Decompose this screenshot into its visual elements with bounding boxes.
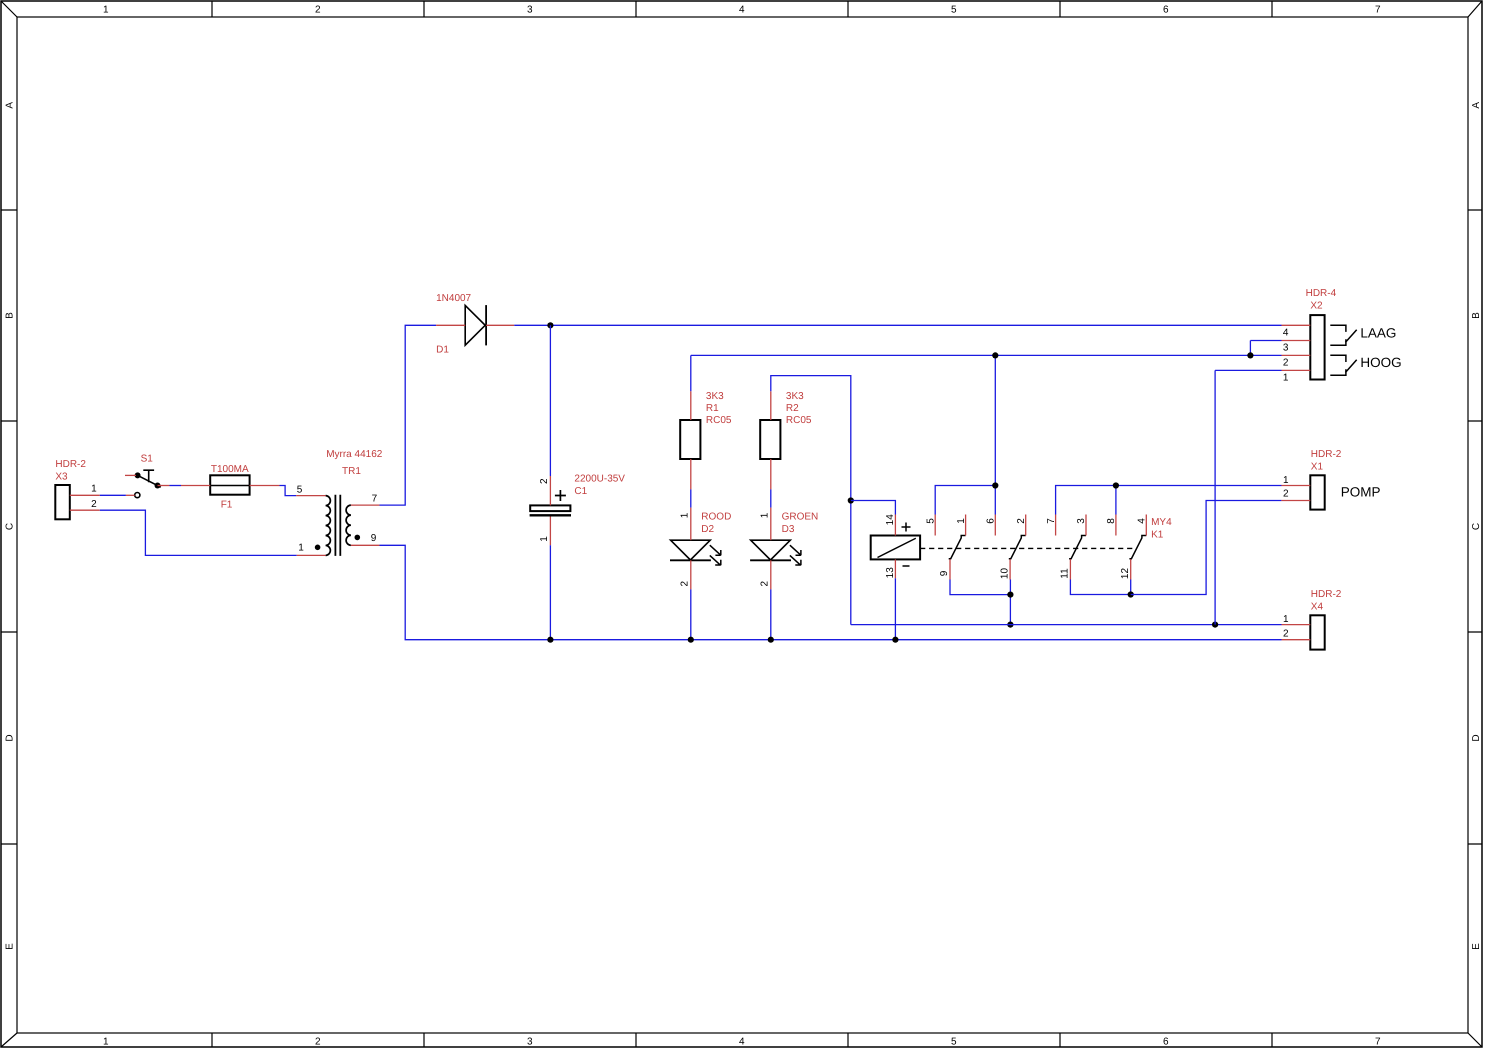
svg-text:5: 5 (925, 518, 936, 524)
svg-text:2: 2 (315, 1037, 321, 1048)
pin K1-3 (1085, 515, 1087, 536)
wire K1.9 down (950, 580, 1010, 595)
pin R2-2 (770, 459, 772, 489)
svg-text:11: 11 (1060, 568, 1071, 579)
wire R2 to D3 (770, 489, 772, 507)
svg-text:HDR-2: HDR-2 (1311, 589, 1342, 600)
relay K1 contact 4 (1129, 536, 1146, 559)
svg-text:3: 3 (527, 1037, 533, 1048)
capacitor C1 (530, 490, 571, 515)
pin R1-1 (690, 391, 692, 420)
svg-text:7: 7 (1375, 5, 1381, 16)
pin K1-9 (949, 559, 951, 579)
svg-text:9: 9 (371, 533, 377, 544)
svg-text:3: 3 (1076, 518, 1087, 524)
wire K1.11 down (1070, 580, 1130, 595)
svg-text:B: B (4, 312, 15, 319)
svg-text:R2: R2 (786, 403, 799, 414)
connector X2 body (1310, 315, 1324, 379)
pin D1 anode (436, 324, 465, 326)
svg-text:T100MA: T100MA (211, 464, 249, 475)
svg-text:D: D (1471, 734, 1482, 741)
svg-text:HDR-2: HDR-2 (55, 459, 86, 470)
svg-text:3K3: 3K3 (786, 391, 804, 402)
junction node K1.5/K1.6 (992, 482, 998, 488)
svg-text:LAAG: LAAG (1360, 326, 1396, 341)
fuse F1 (210, 475, 249, 494)
pin K1-5 (934, 515, 936, 536)
pin TR1-1 (297, 554, 326, 556)
relay K1 coil (871, 523, 920, 567)
pin X3-2 (70, 509, 100, 511)
svg-text:2: 2 (315, 5, 321, 16)
svg-text:1: 1 (1283, 475, 1289, 486)
junction node bus/K1.6 (992, 352, 998, 358)
wire F1 to TR1.5 (280, 486, 297, 496)
wire coil net to K1.14 (851, 501, 896, 515)
junction node C1/bus (547, 637, 553, 643)
svg-text:GROEN: GROEN (782, 512, 819, 523)
svg-text:D1: D1 (436, 344, 449, 355)
svg-text:5: 5 (951, 1037, 957, 1048)
relay K1 actuation dashed line (920, 547, 1136, 549)
wire bus to R1 top (690, 355, 692, 391)
svg-text:7: 7 (1046, 518, 1057, 524)
svg-text:E: E (1471, 943, 1482, 950)
wire X2.1 vertical (1214, 370, 1216, 624)
pin K1-12 (1130, 559, 1132, 579)
pin X2-3 (1282, 340, 1311, 342)
svg-text:6: 6 (1163, 5, 1169, 16)
svg-text:RC05: RC05 (786, 415, 812, 426)
wire TR1.7 to D1 anode (380, 325, 437, 505)
junction node D3/bus (768, 637, 774, 643)
svg-text:1: 1 (539, 536, 550, 542)
wire positive bus to X2.4 (514, 324, 1281, 326)
svg-text:9: 9 (939, 570, 950, 576)
svg-text:S1: S1 (141, 454, 154, 465)
pin F1-1 (181, 485, 210, 487)
svg-text:C1: C1 (574, 486, 587, 497)
pin K1-10 (1009, 559, 1011, 579)
resistor R1 (680, 420, 700, 459)
connector X4 body (1310, 615, 1324, 649)
svg-text:1: 1 (1283, 372, 1289, 383)
svg-text:14: 14 (885, 514, 896, 526)
junction node K1.10/coil net (1007, 622, 1013, 628)
pin X4-1 (1282, 624, 1311, 626)
junction TR1 secondary phase dot (355, 535, 361, 541)
wire X2.1 horizontal (1215, 369, 1281, 371)
svg-text:A: A (1471, 102, 1482, 109)
svg-text:ROOD: ROOD (701, 512, 731, 523)
svg-text:1N4007: 1N4007 (436, 293, 471, 304)
svg-text:X1: X1 (1311, 461, 1324, 472)
pin C1-2 (549, 476, 551, 505)
svg-text:F1: F1 (221, 500, 233, 511)
pin K1-11 (1069, 559, 1071, 579)
pin S1 throw (126, 494, 135, 496)
svg-text:1: 1 (1283, 614, 1289, 625)
pin R1-2 (690, 459, 692, 489)
junction S1 contact (155, 483, 161, 489)
svg-text:10: 10 (999, 568, 1010, 580)
diode D1 (465, 305, 486, 345)
svg-text:5: 5 (951, 5, 957, 16)
svg-text:R1: R1 (706, 403, 719, 414)
svg-text:1: 1 (103, 1037, 109, 1048)
wire K1.13 to bottom bus (894, 578, 896, 639)
LED D3 (750, 540, 801, 565)
LED D2 (670, 540, 721, 565)
pin D2 cathode (690, 560, 692, 589)
wire C1.1 to bottom bus (549, 545, 551, 639)
junction node D1/C1 (547, 322, 553, 328)
junction TR1 primary phase dot (315, 545, 321, 551)
svg-text:MY4: MY4 (1151, 517, 1172, 528)
wire TR1.9 bottom bus (380, 545, 1282, 639)
wire X3.2 to TR1.1 (100, 510, 297, 555)
pin K1-7 (1055, 515, 1057, 536)
svg-text:1: 1 (103, 5, 109, 16)
float switch symbol LAAG (1330, 325, 1356, 345)
wire K1.10 down (1009, 580, 1011, 625)
pin K1-4 (1145, 515, 1147, 536)
junction node K1.13/bus (892, 637, 898, 643)
pin TR1-7 (351, 504, 380, 506)
svg-text:7: 7 (372, 493, 378, 504)
junction node D2/bus (688, 637, 694, 643)
junction node X2.1 net (1212, 622, 1218, 628)
svg-text:C: C (4, 523, 15, 530)
pin K1-2 (1025, 515, 1027, 536)
pin X3-1 (70, 494, 100, 496)
svg-text:POMP: POMP (1341, 485, 1381, 500)
relay K1 contact 3 (1069, 536, 1086, 559)
svg-text:6: 6 (1163, 1037, 1169, 1048)
svg-text:8: 8 (1106, 518, 1117, 524)
pin K1-6 (994, 515, 996, 536)
pin D2 anode (690, 508, 692, 541)
junction node K1.9/K1.10 (1007, 592, 1013, 598)
wire D2 to bottom bus (690, 589, 692, 639)
svg-text:HOOG: HOOG (1360, 355, 1401, 370)
pin D3 anode (770, 508, 772, 541)
pin TR1-9 (351, 544, 380, 546)
pin S1 out (158, 485, 170, 487)
pin K1-8 (1115, 515, 1117, 536)
svg-text:1: 1 (759, 512, 770, 518)
svg-text:4: 4 (1137, 518, 1148, 524)
svg-text:A: A (4, 102, 15, 109)
transformer TR1 (326, 495, 351, 556)
svg-text:D: D (4, 734, 15, 741)
pin C1-1 (549, 517, 551, 546)
svg-text:5: 5 (297, 484, 303, 495)
svg-text:13: 13 (885, 567, 896, 579)
pin K1-1 (965, 515, 967, 536)
wire R1 to D2 (690, 489, 692, 507)
svg-text:2: 2 (759, 580, 770, 586)
svg-text:X3: X3 (55, 472, 68, 483)
junction node K1.7/K1.8 (1113, 482, 1119, 488)
svg-text:2: 2 (1016, 518, 1027, 524)
svg-text:1: 1 (679, 512, 690, 518)
wire D3 to bottom bus (770, 589, 772, 639)
junction node coil14 (848, 497, 854, 503)
svg-text:E: E (4, 943, 15, 950)
svg-text:K1: K1 (1151, 529, 1164, 540)
svg-text:2: 2 (679, 580, 690, 586)
svg-text:2: 2 (1283, 489, 1289, 500)
pin K1-14 (894, 515, 896, 536)
svg-text:4: 4 (739, 5, 745, 16)
wire bus R1/X2.2 (691, 354, 1282, 356)
svg-text:2: 2 (1283, 358, 1289, 369)
wire X3.1 to S1 (100, 494, 126, 496)
pin X1-2 (1281, 500, 1310, 502)
svg-text:7: 7 (1375, 1037, 1381, 1048)
svg-text:4: 4 (739, 1037, 745, 1048)
connector X3 body (55, 485, 70, 519)
svg-text:D3: D3 (782, 524, 795, 535)
pin D1 cathode (486, 324, 514, 326)
junction node X2.2/X2.3 (1247, 352, 1253, 358)
float switch symbol HOOG (1330, 355, 1356, 375)
connector X1 body (1310, 475, 1324, 509)
svg-text:4: 4 (1283, 328, 1289, 339)
wire K1.12 down (1130, 580, 1132, 595)
wire coil net to X4.1 (851, 624, 1282, 626)
svg-text:6: 6 (986, 518, 997, 524)
pin TR1-5 (296, 495, 325, 497)
wire K1.6 to mid bus (994, 355, 996, 514)
svg-text:D2: D2 (701, 524, 714, 535)
wire K1.8 up (1115, 486, 1117, 515)
pin K1-13 (894, 559, 896, 578)
svg-text:C: C (1471, 523, 1482, 530)
svg-text:3: 3 (1283, 343, 1289, 354)
switch S1 (135, 470, 161, 498)
pin R2-1 (770, 391, 772, 420)
junction node K1.11/K1.12 (1128, 591, 1134, 597)
wire bus down to C1.2 (549, 325, 551, 476)
svg-text:2: 2 (91, 499, 97, 510)
wire S1 to F1 (170, 485, 182, 487)
wire K1.5 up (935, 486, 995, 515)
svg-text:HDR-4: HDR-4 (1306, 288, 1337, 299)
wire R2 top to coil net (771, 376, 851, 625)
svg-text:3K3: 3K3 (706, 391, 724, 402)
pin X1-1 (1281, 485, 1310, 487)
pin S1 top (125, 474, 136, 476)
wire X2.3 horizontal (1250, 340, 1281, 342)
svg-text:HDR-2: HDR-2 (1311, 449, 1342, 460)
svg-text:X2: X2 (1310, 301, 1323, 312)
pin X4-2 (1282, 639, 1311, 641)
svg-text:B: B (1471, 312, 1482, 319)
svg-text:1: 1 (956, 518, 967, 524)
svg-text:X4: X4 (1311, 601, 1324, 612)
pin X2-4 (1282, 324, 1311, 326)
resistor R2 (760, 420, 780, 459)
relay K1 contact 1 (949, 536, 966, 559)
svg-text:2200U-35V: 2200U-35V (574, 474, 625, 485)
svg-text:3: 3 (527, 5, 533, 16)
svg-text:1: 1 (91, 484, 97, 495)
svg-text:1: 1 (298, 543, 304, 554)
junction S1 pole (135, 472, 141, 478)
pin X2-2 (1282, 354, 1311, 356)
svg-text:2: 2 (539, 478, 550, 484)
relay K1 contact 2 (1009, 536, 1026, 559)
svg-text:RC05: RC05 (706, 415, 732, 426)
pin X2-1 (1282, 369, 1311, 371)
wire K1.7 to X1.1 (1056, 486, 1282, 515)
pin D3 cathode (770, 560, 772, 589)
svg-text:2: 2 (1283, 629, 1289, 640)
pin F1-2 (250, 485, 280, 487)
wire contacts to X1.2 (1131, 501, 1282, 595)
svg-text:Myrra 44162: Myrra 44162 (326, 449, 383, 460)
svg-text:12: 12 (1120, 568, 1131, 580)
svg-text:TR1: TR1 (342, 466, 361, 477)
wire X2.3 vertical (1249, 341, 1251, 356)
